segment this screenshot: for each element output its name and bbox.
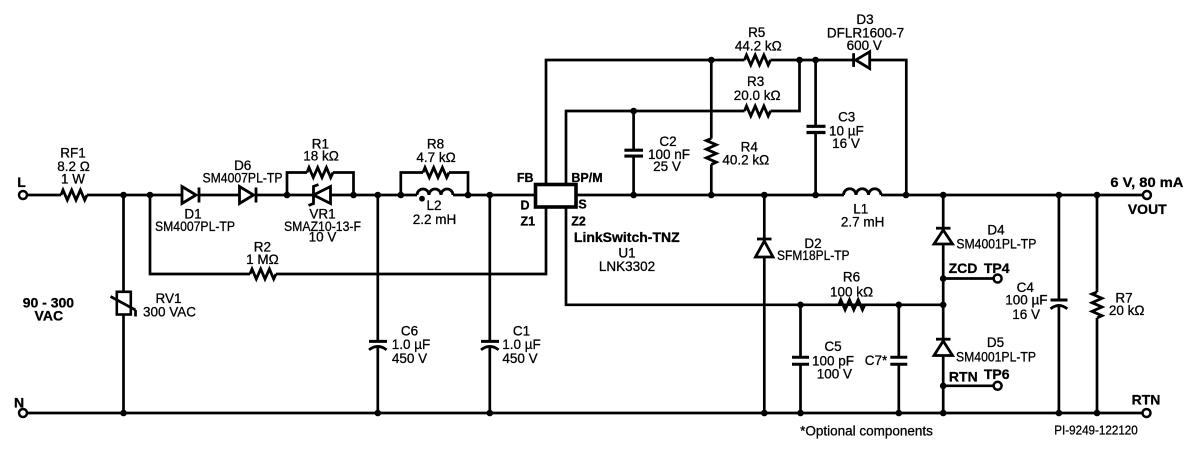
svg-text:100 kΩ: 100 kΩ [830,284,873,299]
svg-text:Z1: Z1 [521,215,536,229]
svg-text:PI-9249-122120: PI-9249-122120 [1054,424,1138,438]
svg-text:D5: D5 [987,335,1004,350]
svg-text:4.7 kΩ: 4.7 kΩ [416,150,455,165]
svg-text:600 V: 600 V [847,38,882,53]
svg-text:SFM18PL-TP: SFM18PL-TP [777,248,850,263]
junction C6 branch top [375,192,382,199]
capacitor C2 [624,111,690,195]
junction R3 right vertical [796,57,803,64]
wire D6 to VR1 node [256,194,314,197]
junction VR1 left node [284,192,291,199]
wire Z1 down and left to R2 [276,207,546,274]
wire R3 right end up to R5 line [771,60,800,111]
capacitor C6 [369,195,430,413]
capacitor C7 [865,305,908,413]
svg-text:D4: D4 [987,222,1005,237]
svg-text:S: S [578,198,586,212]
inductor L2 [413,189,457,227]
junction C4 bottom [1056,410,1063,417]
junction C7 top [896,302,903,309]
svg-text:L: L [17,174,26,190]
op IC U1 LinkSwitch-TNZ [536,185,681,274]
junction C5 top [797,302,804,309]
svg-text:6 V, 80 mA: 6 V, 80 mA [1110,174,1183,190]
wire VR1 to L2 left node [331,194,418,197]
wire BP/M up and right (R3 line) [566,111,745,185]
svg-text:1 W: 1 W [61,172,85,187]
svg-text:1 MΩ: 1 MΩ [246,252,279,267]
wire L to RF1 [28,194,62,197]
svg-text:L2: L2 [426,198,441,213]
svg-text:*Optional components: *Optional components [800,424,933,439]
wire Z2 down and right (R6 line) [566,207,943,305]
terminal RTN [1132,392,1161,418]
label 90-300 VAC [23,294,75,323]
capacitor C4 [1005,195,1067,413]
junction R2 branch [147,192,154,199]
junction R4 bottom on S rail [708,192,715,199]
wire D3 to output rail [870,60,907,195]
junction VR1 right node [350,192,357,199]
diode D5 [934,305,1036,413]
svg-text:RTN: RTN [949,369,978,385]
terminal N [14,395,27,418]
wire R2 to top rail [150,195,250,274]
svg-text:20 kΩ: 20 kΩ [1109,303,1145,318]
svg-text:FB: FB [517,171,534,185]
wire bottom rail [28,412,1143,415]
resistor RF1 [57,146,90,201]
junction C7 bottom [896,410,903,417]
resistor R5 [735,25,782,65]
junction RTN TP6 node [940,383,947,390]
wire S pin to L1 [576,194,844,197]
svg-text:2.7 mH: 2.7 mH [841,215,885,230]
resistor R2 [246,240,279,280]
node ZCD TP4 [943,260,1010,283]
junction C5 bottom [797,410,804,417]
zener VR1 [284,185,361,245]
svg-text:R3: R3 [747,74,764,89]
wire D4 to ZCD node [942,244,945,305]
svg-text:VAC: VAC [35,307,64,323]
svg-text:C5: C5 [824,339,841,354]
inductor L1 [841,189,885,230]
junction R7 bottom [1094,410,1101,417]
junction D5 bottom [940,410,947,417]
resistor R6 [830,269,873,310]
svg-text:C3: C3 [838,110,855,125]
junction C2 top [630,108,637,115]
diode D4 [934,222,1036,251]
svg-text:450 V: 450 V [502,351,537,366]
resistor R1 parallel branch [287,137,354,195]
terminal L [17,174,27,199]
svg-text:1.0 µF: 1.0 µF [392,337,431,352]
capacitor C1 [481,195,541,413]
svg-text:R6: R6 [843,269,860,284]
diode D3 [771,12,905,69]
varistor RV1 [111,195,197,413]
node RTN TP6 [943,366,1010,390]
svg-text:TP6: TP6 [984,366,1010,382]
wire L2 to U1 D pin [453,194,536,197]
resistor R7 [1092,195,1145,413]
junction R7 top on rail [1094,192,1101,199]
junction C1 branch top [487,192,494,199]
terminal VOUT [1110,174,1183,217]
svg-text:C7*: C7* [865,353,888,368]
svg-text:100 V: 100 V [817,366,852,381]
wire L1 to VOUT [881,194,1143,197]
junction C3 top [812,57,819,64]
resistor R3 [734,74,781,116]
svg-text:SM4001PL-TP: SM4001PL-TP [956,236,1036,251]
wire D1 to D6 [199,194,240,197]
resistor R8 parallel branch [401,137,468,196]
svg-text:20.0 kΩ: 20.0 kΩ [734,88,781,103]
svg-text:RTN: RTN [1132,392,1161,408]
junction L2 right node [465,192,472,199]
junction L2 left node [398,192,405,199]
junction Z2 line at D4 D5 [940,302,947,309]
junction C1 bottom [487,410,494,417]
svg-text:100 µF: 100 µF [1005,293,1047,308]
junction D4 top on rail [940,192,947,199]
svg-text:BP/M: BP/M [571,171,602,185]
junction R4 top [708,57,715,64]
diode D1 [155,187,235,235]
junction C6 bottom [375,410,382,417]
diode D2 [756,195,850,413]
svg-text:40.2 kΩ: 40.2 kΩ [722,153,769,168]
resistor R4 [706,60,769,195]
capacitor C3 [807,60,864,195]
wire D4 chain vertical [942,195,945,230]
svg-text:2.2 mH: 2.2 mH [413,212,457,227]
junction ZCD node [940,275,947,282]
svg-text:LinkSwitch-TNZ: LinkSwitch-TNZ [574,229,680,245]
junction RV1 branch [120,192,127,199]
svg-text:SM4001PL-TP: SM4001PL-TP [956,350,1036,365]
wire RF1 to D1 [87,194,182,197]
capacitor C5 [792,305,854,413]
junction C3 bottom on rail [812,192,819,199]
svg-text:D: D [520,198,529,212]
svg-text:44.2 kΩ: 44.2 kΩ [735,39,782,54]
junction D2 top on rail [761,192,768,199]
svg-text:450 V: 450 V [392,351,427,366]
svg-text:Z2: Z2 [571,215,586,229]
svg-text:18 kΩ: 18 kΩ [303,149,339,164]
svg-text:LNK3302: LNK3302 [599,259,655,274]
svg-text:SM4007PL-TP: SM4007PL-TP [155,219,235,234]
svg-text:TP4: TP4 [984,260,1010,276]
junction RV1 bottom [120,410,127,417]
svg-text:16 V: 16 V [832,136,860,151]
svg-text:300 VAC: 300 VAC [143,305,196,320]
svg-text:10 V: 10 V [309,230,337,245]
svg-text:25 V: 25 V [653,159,681,174]
junction D2 bottom [761,410,768,417]
svg-text:ZCD: ZCD [949,260,978,276]
wire FB up and right to R5 [546,60,745,185]
svg-text:SM4007PL-TP: SM4007PL-TP [203,171,283,186]
svg-text:16 V: 16 V [1012,307,1040,322]
junction C2 bottom on S rail [630,192,637,199]
svg-text:N: N [14,395,24,411]
diode D6 [203,158,283,204]
junction C4 top on rail [1056,192,1063,199]
svg-text:VOUT: VOUT [1128,201,1167,217]
junction D3 return on rail [903,192,910,199]
svg-text:1.0 µF: 1.0 µF [502,337,541,352]
